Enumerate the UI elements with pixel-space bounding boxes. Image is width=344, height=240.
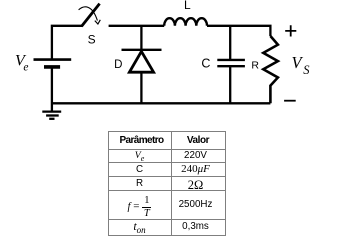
- diode D: bottom lead to rail: [140, 72, 142, 103]
- label L: [184, 0, 191, 12]
- label R: [251, 59, 259, 71]
- resistor R zigzag: [263, 36, 278, 103]
- svg-text:D: D: [114, 59, 122, 71]
- label Vs (output voltage): [292, 53, 311, 77]
- inductor L: [164, 18, 207, 26]
- diode D: top lead from switch node: [140, 26, 142, 50]
- switch actuation arrow: [79, 7, 101, 24]
- svg-text:C: C: [201, 56, 210, 70]
- wire: switch to inductor (node with diode tap): [109, 25, 165, 27]
- battery source Ve: long positive plate: [34, 58, 72, 61]
- value label t_on = 0,3ms: [108, 219, 225, 235]
- capacitor C: plates: [217, 60, 245, 66]
- label S: [88, 33, 96, 47]
- output polarity minus: [284, 100, 296, 102]
- parameter table: [108, 131, 226, 236]
- value label C = 240uF: [108, 163, 225, 177]
- wire: battery positive up and across to switch: [52, 26, 82, 61]
- diode D: cathode bar: [122, 49, 162, 51]
- output polarity plus: [285, 25, 296, 36]
- svg-text:S: S: [88, 33, 96, 47]
- capacitor C: top lead from output node: [229, 26, 231, 60]
- diode D: triangle (anode below, pointing up): [129, 51, 153, 72]
- switch S blade: [82, 4, 100, 27]
- svg-text:Ve: Ve: [15, 52, 29, 73]
- label D: [114, 59, 122, 71]
- wire: battery negative down to rail and ground: [51, 67, 53, 111]
- capacitor C: bottom lead to rail: [229, 66, 231, 103]
- label Ve: [15, 52, 29, 73]
- label C: [201, 56, 210, 70]
- svg-text:L: L: [184, 0, 191, 12]
- svg-text:VS: VS: [292, 53, 311, 77]
- table header: [108, 132, 225, 236]
- battery source Ve: short negative plate: [44, 65, 60, 69]
- ground: [42, 112, 61, 119]
- value label Ve = 220V: [108, 150, 225, 163]
- value label f = 1/T = 2500Hz: [108, 190, 225, 219]
- svg-text:R: R: [251, 59, 259, 71]
- wire: inductor to top-right corner, down to resistor: [207, 26, 270, 36]
- value label R = 2 ohm: [108, 177, 225, 191]
- bottom wire (ground rail): [52, 102, 271, 104]
